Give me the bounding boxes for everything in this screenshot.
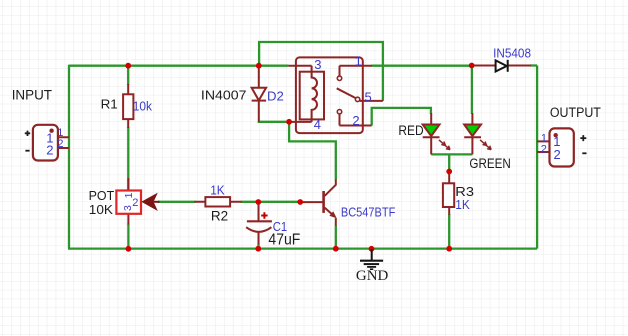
- wire relay top loop: [259, 42, 383, 101]
- diode D2: [252, 88, 267, 101]
- svg-text:2: 2: [46, 142, 53, 157]
- svg-text:1: 1: [355, 54, 362, 69]
- potentiometer wiper arrow: [141, 193, 158, 211]
- wire emitter to rail: [335, 225, 337, 249]
- svg-text:R1: R1: [101, 97, 118, 112]
- input connector marker dot: [49, 129, 53, 133]
- input plus label: [25, 131, 30, 136]
- wire led cathodes join: [431, 153, 472, 155]
- relay coil: [312, 72, 317, 120]
- svg-text:47uF: 47uF: [268, 231, 300, 248]
- junction leds R3: [446, 169, 452, 175]
- relay pin4 wire: [289, 119, 312, 122]
- output connector marker dot: [554, 133, 558, 137]
- wire bottom rail: [68, 247, 537, 249]
- junction rail POT: [125, 246, 131, 252]
- svg-text:BC547BTF: BC547BTF: [341, 205, 395, 220]
- wire relay pin1 to junction: [371, 65, 472, 67]
- svg-text:3: 3: [122, 205, 134, 211]
- svg-text:1: 1: [57, 127, 63, 139]
- relay pin5 contact circle: [355, 97, 359, 101]
- svg-text:1K: 1K: [210, 183, 225, 198]
- diode IN5408: [496, 60, 508, 72]
- output connector pin stubs: [537, 141, 550, 152]
- svg-text:D2: D2: [267, 89, 284, 104]
- output connector J2 box: [550, 128, 574, 166]
- svg-text:2: 2: [541, 144, 547, 156]
- junction top leds/IN5408: [469, 63, 475, 69]
- wire R1 top: [127, 66, 129, 85]
- wire diode out corner: [530, 64, 537, 66]
- POT pin stubs: [127, 178, 129, 225]
- wire relay pin2 loop to RED led: [372, 108, 431, 126]
- svg-text:10k: 10k: [133, 99, 153, 114]
- input connector pin stubs: [58, 137, 69, 148]
- junction rail GND: [369, 246, 375, 252]
- relay pin5 wire: [360, 100, 383, 102]
- wire POT bottom: [127, 224, 129, 249]
- relay pin2 wire: [340, 114, 372, 126]
- transistor Q1 BC547BTF: [324, 179, 336, 225]
- R3 pin stubs: [448, 172, 450, 215]
- relay pin2 contact circle: [337, 110, 341, 114]
- D2 pin stubs: [258, 66, 260, 122]
- Q1 base stub: [300, 201, 322, 203]
- wire C1 bottom: [257, 244, 259, 249]
- output plus label: [580, 135, 586, 141]
- svg-text:GREEN: GREEN: [469, 156, 510, 171]
- pin stubs (dark red wires): [58, 66, 550, 245]
- wire left rail: [68, 65, 70, 249]
- junction R2/C1: [255, 199, 261, 205]
- junction rail emitter: [333, 246, 339, 252]
- junction top D2: [256, 63, 262, 69]
- wire top rail: [68, 42, 537, 249]
- resistor R1: [123, 94, 133, 119]
- wire green led feed: [471, 66, 473, 115]
- relay pin3 wire: [288, 66, 311, 72]
- resistor R2: [205, 197, 230, 206]
- svg-text:R2: R2: [211, 209, 228, 224]
- C1 pin stubs: [258, 202, 260, 244]
- input connector J1 box: [33, 125, 58, 161]
- wire node to collector: [289, 122, 336, 180]
- wire POT wiper to R2: [158, 201, 196, 203]
- svg-text:IN4007: IN4007: [201, 88, 247, 103]
- GREEN led stubs: [471, 113, 473, 154]
- input minus label: [25, 150, 29, 152]
- IN5408 diode stubs: [472, 65, 531, 67]
- svg-text:2: 2: [57, 138, 63, 150]
- LED GREEN emission arrows: [480, 140, 491, 150]
- R1 pin stubs: [127, 84, 129, 128]
- svg-text:OUTPUT: OUTPUT: [550, 105, 601, 120]
- output minus label: [582, 152, 586, 154]
- svg-text:4: 4: [314, 117, 321, 132]
- capacitor C1 top plate: [247, 220, 272, 222]
- capacitor C1 curved plate: [246, 227, 271, 232]
- wire R3 bottom: [448, 214, 450, 249]
- ground symbol: [360, 249, 383, 269]
- svg-text:2: 2: [352, 113, 359, 128]
- junction rail C1: [255, 246, 261, 252]
- R2 pin stubs: [195, 201, 242, 203]
- relay pin1 wire: [340, 66, 372, 76]
- wire R1 to POT: [127, 127, 129, 191]
- wire right rail: [536, 66, 538, 249]
- resistor R3: [443, 183, 454, 207]
- LED RED emission arrows: [439, 140, 450, 150]
- relay K1 outer box: [296, 57, 363, 133]
- svg-text:POT: POT: [89, 189, 115, 203]
- potentiometer wiper tail: [154, 201, 160, 203]
- svg-text:RED: RED: [398, 123, 424, 138]
- relay coil box: [300, 72, 324, 120]
- wire D2 bottom to relay pin4 node: [259, 120, 289, 123]
- svg-text:IN5408: IN5408: [493, 45, 531, 60]
- potentiometer POT box: [116, 191, 141, 214]
- transistor emitter arrowhead: [329, 211, 336, 218]
- svg-text:1K: 1K: [455, 197, 470, 212]
- svg-text:GND: GND: [356, 268, 388, 284]
- relay switch arm: [337, 88, 356, 98]
- wire leds to R3: [448, 154, 450, 171]
- LED GREEN: [464, 125, 491, 150]
- junction relay pin4 node: [286, 119, 292, 125]
- svg-text:5: 5: [365, 89, 372, 104]
- RED led stubs: [430, 113, 432, 154]
- capacitor C1 plus sign: [261, 212, 267, 218]
- relay common contact circle: [337, 76, 341, 80]
- junction rail R3: [446, 246, 452, 252]
- svg-text:10K: 10K: [89, 203, 114, 217]
- svg-text:2: 2: [554, 147, 561, 162]
- wire R2 to base node: [241, 201, 301, 203]
- junction base node: [297, 199, 303, 205]
- svg-text:INPUT: INPUT: [12, 87, 52, 102]
- junction top R1: [125, 63, 131, 69]
- LED RED: [423, 125, 450, 150]
- svg-text:3: 3: [314, 57, 321, 72]
